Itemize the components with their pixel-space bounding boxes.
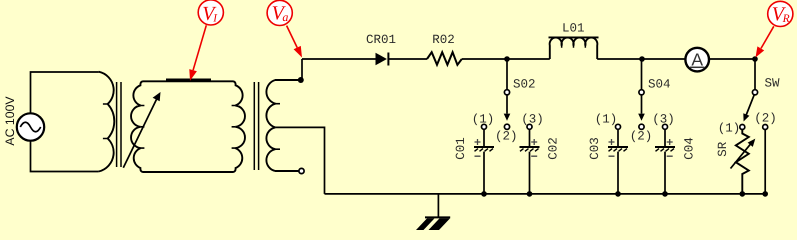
wire Va node vertical — [301, 59, 303, 80]
wire C03 to bottom rail — [617, 152, 619, 194]
variac wiper bar — [166, 78, 211, 81]
wire C02 terminal to plates — [529, 129, 531, 146]
wire C01 terminal to plates — [483, 129, 485, 146]
red probe label V_I — [189, 0, 223, 81]
svg-text:SW: SW — [765, 77, 781, 91]
wire C04 to bottom rail — [664, 152, 666, 194]
variac (slide transformer) body — [131, 81, 245, 172]
switch S04 pivot terminal — [639, 90, 644, 95]
capacitor C02 terminal circle — [527, 124, 532, 129]
node S04 junction dot — [639, 56, 645, 62]
terminal (1) of SR — [740, 125, 745, 130]
svg-text:(2): (2) — [495, 130, 518, 144]
capacitor C04 positive plate — [655, 146, 675, 148]
L01 top bar — [549, 36, 599, 38]
svg-text:C03: C03 — [588, 137, 602, 160]
capacitor C02 negative plate (dashed) — [520, 149, 539, 152]
switch S04 throw terminal (2) — [639, 124, 644, 129]
svg-text:(1): (1) — [718, 121, 741, 135]
polarity marks of C03 — [609, 139, 615, 156]
capacitor C03 negative plate (dashed) — [609, 149, 628, 152]
switch SW arm — [746, 95, 754, 115]
node S02 junction dot — [504, 56, 510, 62]
svg-text:S04: S04 — [648, 78, 671, 92]
transformer T2 secondary winding upper — [266, 80, 300, 127]
wire C04 terminal to plates — [664, 129, 666, 146]
svg-text:(1): (1) — [472, 113, 495, 127]
variac cusp ticks — [141, 106, 236, 149]
svg-text:SR: SR — [716, 141, 730, 157]
wire AC top — [31, 72, 99, 113]
wire node to switch SW — [754, 59, 756, 90]
ammeter A — [685, 48, 709, 72]
wire — [709, 58, 755, 60]
wire top main — [302, 58, 376, 60]
junction dot SR on rail — [740, 191, 746, 197]
terminal (2) of SR — [763, 125, 768, 130]
capacitor C03 terminal circle — [616, 124, 621, 129]
red probe label V_a — [267, 0, 302, 57]
junction dot C03 on rail — [615, 191, 621, 197]
wire C01 to bottom rail — [483, 152, 485, 194]
svg-text:AC 100V: AC 100V — [3, 96, 17, 146]
L01 cusp ticks — [562, 45, 586, 48]
svg-text:R02: R02 — [432, 33, 455, 47]
junction dot C01 on rail — [481, 191, 487, 197]
switch S02 pivot terminal — [504, 90, 509, 95]
svg-text:CR01: CR01 — [366, 33, 396, 47]
cusp tick — [275, 148, 280, 150]
wire T2 center tap to bottom rail — [275, 127, 324, 193]
junction dot terminal 2 on rail — [762, 191, 768, 197]
svg-text:(3): (3) — [521, 113, 544, 127]
wire — [388, 58, 427, 60]
switch SW pivot terminal — [752, 90, 757, 95]
transformer T1 core — [117, 82, 121, 167]
svg-text:A: A — [691, 49, 703, 69]
switch S04 arm — [641, 95, 643, 114]
node VR junction dot — [752, 56, 758, 62]
switch S02 throw terminal (2) — [504, 124, 509, 129]
svg-text:C01: C01 — [454, 137, 468, 160]
red probe label V_R — [756, 1, 793, 57]
capacitor C04 negative plate (dashed) — [656, 149, 675, 152]
junction dot C04 on rail — [662, 191, 668, 197]
wire terminal 2 down — [764, 129, 766, 194]
variac arrow — [123, 99, 157, 168]
wire C02 to bottom rail — [529, 152, 531, 194]
polarity marks of C01 — [475, 139, 481, 156]
polarity marks of C02 — [531, 139, 537, 156]
AC source circle — [17, 113, 44, 140]
diode CR01 anode triangle — [376, 53, 387, 66]
wire C03 terminal to plates — [617, 129, 619, 146]
wire — [597, 58, 685, 60]
junction dot C02 on rail — [527, 191, 533, 197]
transformer T2 core — [254, 82, 258, 170]
node dot T2 top terminal — [298, 77, 304, 83]
svg-text:L01: L01 — [562, 22, 585, 36]
inductor L01 — [550, 38, 598, 59]
capacitor C04 terminal circle — [663, 124, 668, 129]
svg-text:(2): (2) — [630, 130, 653, 144]
svg-text:a: a — [282, 10, 288, 24]
capacitor C03 positive plate — [608, 146, 628, 148]
svg-text:R: R — [782, 13, 790, 25]
polarity marks of C04 — [667, 139, 673, 156]
capacitor C01 terminal circle — [482, 124, 487, 129]
T2 bottom open terminal — [299, 168, 304, 173]
rheostat SR — [736, 129, 749, 194]
ground (chassis) — [437, 194, 439, 217]
capacitor C01 negative plate (dashed) — [475, 149, 494, 152]
transformer T1 primary coil — [99, 72, 115, 172]
switch S02 arm — [506, 95, 508, 114]
svg-text:(3): (3) — [652, 113, 675, 127]
transformer T2 secondary winding lower — [266, 127, 299, 171]
wire — [462, 58, 550, 60]
wire AC bottom — [31, 141, 99, 172]
bottom rail wire — [325, 193, 768, 195]
SR arrow — [731, 144, 751, 168]
svg-text:C02: C02 — [547, 137, 561, 160]
diode CR01 cathode bar — [387, 53, 389, 66]
svg-text:(2): (2) — [754, 112, 777, 126]
capacitor C01 positive plate — [474, 146, 494, 148]
T1 cusp ticks — [103, 104, 108, 139]
wire node to switch S04 — [641, 59, 643, 90]
capacitor C02 positive plate — [520, 146, 540, 148]
svg-text:C04: C04 — [683, 137, 697, 160]
svg-text:(1): (1) — [595, 113, 618, 127]
resistor R02 — [427, 52, 462, 65]
wire node to switch S02 — [506, 59, 508, 90]
cusp tick — [275, 103, 280, 105]
svg-text:S02: S02 — [513, 78, 536, 92]
